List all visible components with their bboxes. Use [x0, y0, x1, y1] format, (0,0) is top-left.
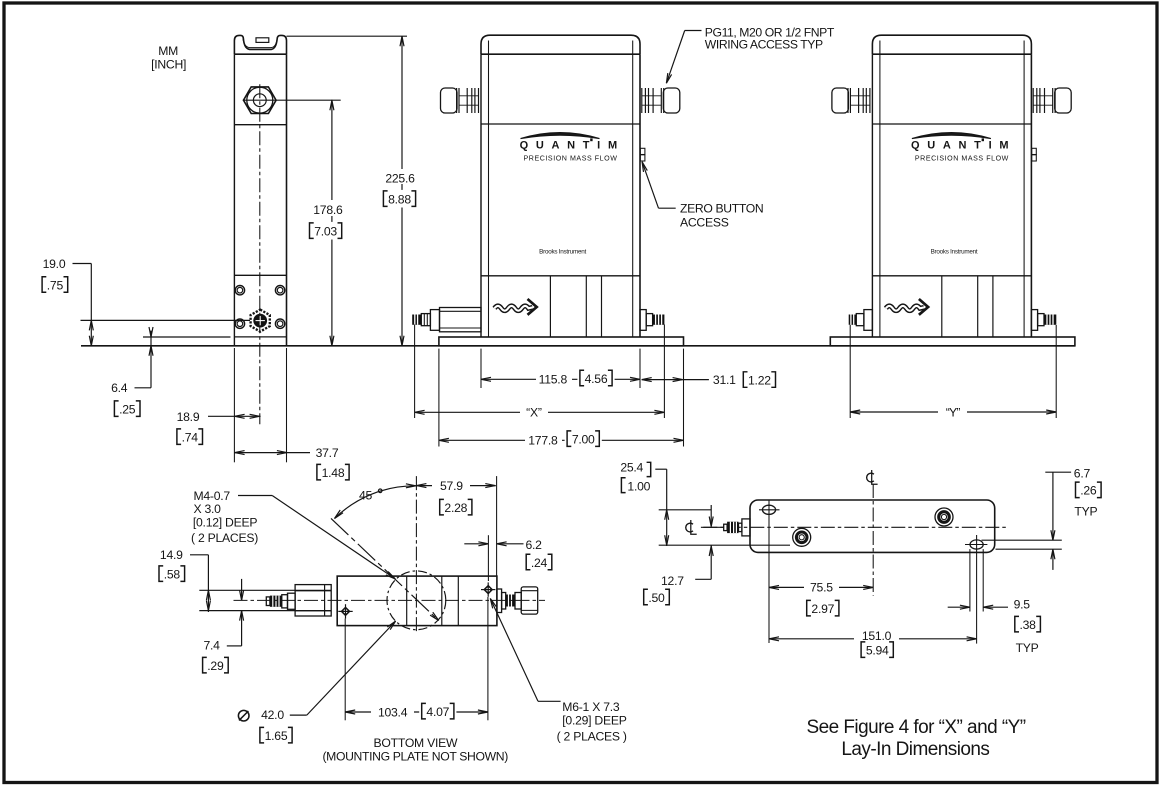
svg-text:6.7: 6.7 — [1074, 467, 1091, 481]
svg-text:178.6: 178.6 — [313, 203, 343, 217]
svg-text:4.56: 4.56 — [585, 372, 608, 386]
svg-text:[0.12] DEEP: [0.12] DEEP — [193, 515, 257, 529]
svg-text:Brooks Instrument: Brooks Instrument — [931, 249, 978, 256]
svg-text:25.4: 25.4 — [620, 461, 643, 475]
svg-text:7.03: 7.03 — [314, 225, 337, 239]
svg-text:2.97: 2.97 — [811, 602, 834, 616]
svg-text:37.7: 37.7 — [316, 446, 339, 460]
svg-text:.25: .25 — [119, 403, 136, 417]
svg-text:MM: MM — [158, 44, 178, 58]
svg-text:6.2: 6.2 — [525, 538, 542, 552]
svg-text:1.22: 1.22 — [748, 373, 771, 387]
svg-text:1.00: 1.00 — [627, 479, 650, 493]
svg-text:7.4: 7.4 — [203, 638, 220, 652]
svg-text:151.0: 151.0 — [862, 629, 892, 643]
svg-text:225.6: 225.6 — [385, 172, 415, 186]
svg-text:TYP: TYP — [1016, 641, 1039, 655]
svg-text:.24: .24 — [531, 556, 548, 570]
svg-text:PRECISION MASS FLOW: PRECISION MASS FLOW — [523, 155, 617, 163]
svg-text:Brooks Instrument: Brooks Instrument — [539, 249, 586, 256]
svg-text:X 3.0: X 3.0 — [194, 502, 222, 516]
svg-text:QUANTIM: QUANTIM — [911, 139, 1016, 151]
svg-text:31.1: 31.1 — [713, 373, 736, 387]
svg-text:PRECISION MASS FLOW: PRECISION MASS FLOW — [915, 155, 1009, 163]
svg-text:75.5: 75.5 — [810, 581, 833, 595]
svg-text:2.28: 2.28 — [444, 501, 467, 515]
svg-text:QUANTIM: QUANTIM — [520, 139, 625, 151]
svg-text:( 2 PLACES ): ( 2 PLACES ) — [557, 729, 627, 743]
svg-text:1.48: 1.48 — [322, 466, 345, 480]
svg-text:.75: .75 — [47, 278, 64, 292]
svg-text:[0.29] DEEP: [0.29] DEEP — [562, 714, 626, 728]
svg-text:.50: .50 — [648, 591, 665, 605]
svg-text:ZERO BUTTON: ZERO BUTTON — [680, 202, 763, 216]
svg-text:6.4: 6.4 — [111, 381, 128, 395]
svg-text:( 2 PLACES): ( 2 PLACES) — [191, 531, 258, 545]
svg-text:115.8: 115.8 — [539, 373, 568, 387]
svg-text:.26: .26 — [1080, 484, 1097, 498]
svg-text:.38: .38 — [1019, 618, 1036, 632]
svg-text:103.4: 103.4 — [378, 705, 408, 719]
svg-text:M4-0.7: M4-0.7 — [194, 489, 231, 503]
svg-text:8.88: 8.88 — [388, 193, 411, 207]
svg-text:Lay-In Dimensions: Lay-In Dimensions — [841, 739, 989, 760]
svg-text:.29: .29 — [207, 659, 224, 673]
svg-text:4.07: 4.07 — [426, 705, 449, 719]
svg-text:.74: .74 — [182, 431, 199, 445]
svg-text:9.5: 9.5 — [1014, 597, 1031, 611]
svg-text:19.0: 19.0 — [43, 257, 66, 271]
svg-text:ACCESS: ACCESS — [680, 215, 729, 229]
svg-text:45: 45 — [359, 489, 373, 503]
svg-text:1.65: 1.65 — [265, 729, 288, 743]
svg-text:5.94: 5.94 — [866, 644, 889, 658]
svg-text:12.7: 12.7 — [661, 574, 684, 588]
svg-text:18.9: 18.9 — [177, 410, 200, 424]
svg-text:BOTTOM VIEW: BOTTOM VIEW — [374, 736, 458, 750]
svg-text:“Y”: “Y” — [946, 405, 961, 419]
svg-text:See Figure 4 for “X” and “Y”: See Figure 4 for “X” and “Y” — [806, 717, 1025, 738]
svg-text:“X”: “X” — [526, 406, 542, 420]
svg-text:14.9: 14.9 — [160, 548, 183, 562]
svg-text:42.0: 42.0 — [261, 708, 284, 722]
svg-text:.58: .58 — [164, 568, 181, 582]
svg-text:WIRING ACCESS TYP: WIRING ACCESS TYP — [705, 38, 823, 52]
svg-text:M6-1 X 7.3: M6-1 X 7.3 — [562, 700, 620, 714]
svg-text:TYP: TYP — [1074, 504, 1097, 518]
svg-text:177.8: 177.8 — [528, 434, 558, 448]
svg-text:[INCH]: [INCH] — [151, 58, 186, 72]
svg-text:7.00: 7.00 — [572, 433, 595, 447]
svg-text:(MOUNTING PLATE NOT SHOWN): (MOUNTING PLATE NOT SHOWN) — [322, 750, 508, 764]
svg-text:57.9: 57.9 — [440, 479, 463, 493]
